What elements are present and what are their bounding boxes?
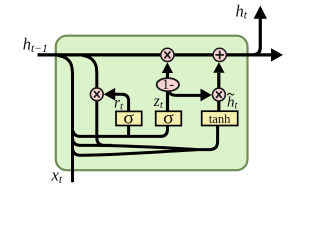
svg-text:σ: σ [123,108,134,128]
wire: h_t branch up with fillet [253,19,261,55]
svg-text:tanh: tanh [209,112,231,126]
wire: sigma_z output up through 1- to top x-circle [166,73,169,112]
wire: branch V2 from h-line down through r-multiply circle, joins bus B [83,55,113,145]
gate: tanh box [202,111,238,125]
wire: elbow into bus B [73,138,197,150]
arrowhead: into top x-circle [162,62,173,73]
arrowhead: into h-tilde multiply [201,89,212,102]
gate: sigma_z box [156,111,182,125]
node: h-tilde multiply circle [213,88,226,101]
node: r-multiply circle [90,88,103,101]
wire: sigma_r output up and left to r-multiply [115,94,129,111]
wire: elbow into bus A + bus A to sigma_z [73,126,168,137]
node: element-wise multiply (top, 1-z gate) [161,48,174,61]
gate: sigma_r box [116,111,142,125]
label: tilde accent over h [228,93,234,95]
wire: sigma_r bottom stub [127,126,130,137]
wire: h(t-1) main horizontal line [38,53,272,56]
node: add (plus circle) [213,48,226,61]
GRU cell body (green rounded box) [56,36,248,171]
wire: left branch V1 from h-line down (h/x cable), exits box bottom as x_t [58,55,73,182]
svg-text:1-: 1- [162,77,174,93]
wire: merged bus to tanh bottom [194,126,218,150]
arrowhead: into plus circle [213,62,224,73]
arrowhead: into r-multiply [104,88,116,101]
arrowhead: output right [271,48,283,61]
svg-text:σ: σ [163,108,174,128]
node: 1-minus ellipse [157,78,179,91]
wire: tanh output up through h-tilde multiply to plus circle [217,73,220,112]
arrowhead: h_t up [254,6,267,19]
wire: z branch right to h-tilde multiply [168,89,202,96]
wire: slant bus C from x_t [73,148,197,156]
